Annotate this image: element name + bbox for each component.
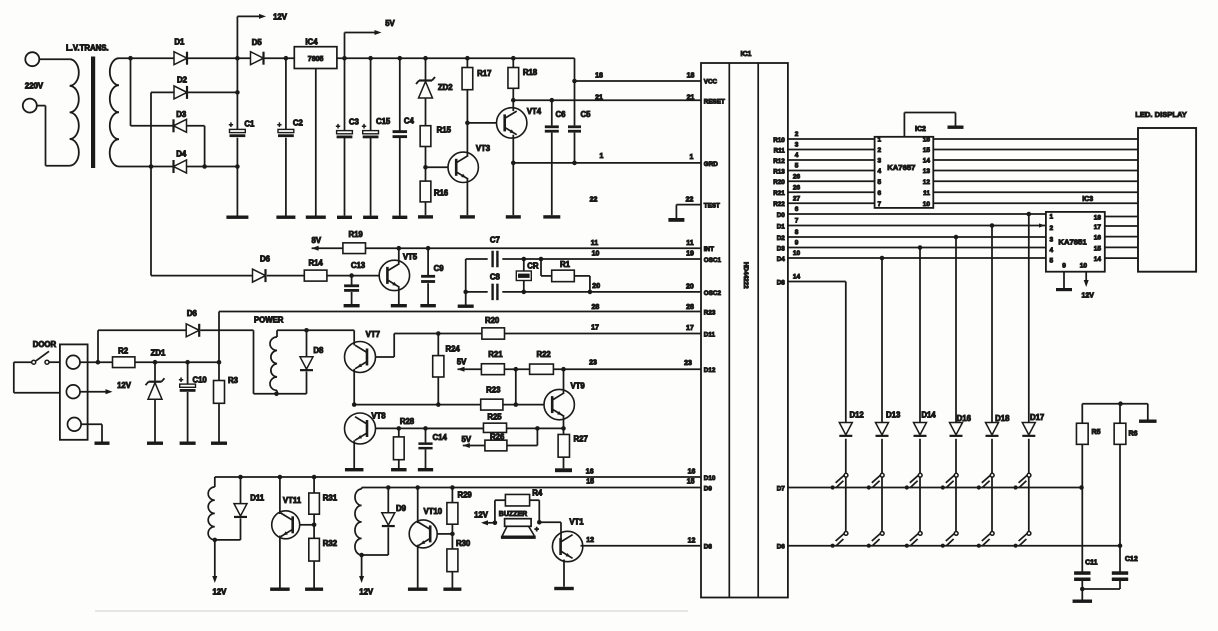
svg-text:D5: D5 [252,38,263,47]
svg-text:D14: D14 [921,411,936,420]
svg-text:11: 11 [923,190,930,197]
svg-text:D11: D11 [250,494,265,503]
svg-text:C10: C10 [192,376,207,385]
svg-text:BUZZER: BUZZER [499,511,527,518]
svg-text:12: 12 [923,179,931,186]
svg-text:C15: C15 [376,117,391,126]
svg-text:16: 16 [1094,235,1102,242]
svg-text:R28: R28 [400,417,415,426]
svg-text:R23: R23 [704,310,716,317]
svg-text:4: 4 [878,168,882,175]
svg-text:18: 18 [595,73,603,80]
svg-text:6: 6 [878,190,882,197]
svg-text:VT1: VT1 [569,518,584,527]
svg-text:8: 8 [795,229,799,236]
svg-text:7805: 7805 [308,56,324,63]
svg-text:20: 20 [686,284,694,291]
svg-text:VCC: VCC [704,79,718,86]
svg-text:C7: C7 [490,236,500,245]
svg-text:C5: C5 [581,110,592,119]
svg-text:IC3: IC3 [1082,196,1093,203]
svg-text:15: 15 [1094,246,1102,253]
svg-text:15: 15 [586,478,594,485]
svg-text:D3: D3 [777,245,786,252]
svg-text:C13: C13 [351,261,366,270]
svg-text:D2: D2 [777,235,786,242]
svg-text:21: 21 [687,95,695,102]
svg-text:1: 1 [600,153,604,160]
svg-text:OSC1: OSC1 [704,257,722,264]
svg-text:D12: D12 [704,367,716,374]
svg-text:C3: C3 [349,117,360,126]
svg-text:1: 1 [1050,214,1054,221]
svg-text:12: 12 [586,537,594,544]
svg-text:17: 17 [1094,224,1102,231]
svg-text:C11: C11 [1085,560,1098,567]
svg-text:12V: 12V [212,588,227,597]
svg-text:R11: R11 [774,147,786,154]
svg-text:R5: R5 [1092,429,1101,436]
svg-text:VT7: VT7 [366,330,380,339]
svg-text:D8: D8 [704,544,713,551]
svg-text:ZD1: ZD1 [151,349,166,358]
svg-text:D10: D10 [704,475,716,482]
svg-text:7: 7 [878,201,882,208]
svg-text:D7: D7 [777,485,786,492]
svg-text:3: 3 [1050,237,1054,244]
svg-text:RESET: RESET [704,99,725,106]
svg-text:23: 23 [684,360,692,367]
svg-text:D3: D3 [176,110,187,119]
svg-text:4: 4 [795,152,799,159]
svg-text:C6: C6 [556,110,567,119]
svg-text:D11: D11 [704,332,716,339]
svg-text:5V: 5V [385,19,395,28]
svg-text:VT8: VT8 [371,412,386,421]
svg-text:6: 6 [795,206,799,213]
svg-text:IC2: IC2 [915,126,926,133]
svg-text:D4: D4 [777,256,786,263]
svg-text:2: 2 [878,147,882,154]
svg-text:13: 13 [923,168,931,175]
svg-text:LED. DISPLAY: LED. DISPLAY [1135,110,1187,119]
svg-text:R18: R18 [523,68,538,77]
svg-text:IC1: IC1 [741,51,752,58]
svg-text:R1: R1 [560,260,571,269]
svg-text:R29: R29 [457,491,472,500]
svg-text:9: 9 [1062,263,1066,270]
svg-text:14: 14 [923,158,931,165]
svg-text:8V: 8V [312,236,322,245]
svg-text:R2: R2 [118,347,129,356]
svg-text:D1: D1 [777,223,786,230]
svg-text:10: 10 [923,201,931,208]
svg-text:D9: D9 [704,486,713,493]
svg-text:D6: D6 [260,255,271,264]
svg-text:D2: D2 [177,76,188,85]
svg-text:10: 10 [793,250,801,257]
svg-text:21: 21 [595,95,603,102]
svg-text:15: 15 [687,478,695,485]
svg-text:R32: R32 [323,539,338,548]
svg-text:5: 5 [795,163,799,170]
svg-text:3: 3 [878,158,882,165]
svg-text:12V: 12V [1081,293,1094,300]
svg-text:C9: C9 [434,264,445,273]
svg-text:C14: C14 [433,433,448,442]
svg-text:R13: R13 [773,168,785,175]
svg-text:D12: D12 [849,411,864,420]
svg-text:D6: D6 [187,309,198,318]
svg-text:+: + [229,122,233,129]
svg-text:R23: R23 [486,386,501,395]
svg-text:POWER: POWER [254,315,284,324]
svg-text:TEST: TEST [704,203,720,210]
svg-text:R4: R4 [532,489,543,498]
svg-text:+: + [179,377,183,384]
svg-text:D17: D17 [1030,413,1044,422]
svg-text:28: 28 [686,304,694,311]
svg-text:R10: R10 [773,137,785,144]
svg-text:D13: D13 [886,411,901,420]
svg-text:R12: R12 [773,158,785,165]
svg-text:5V: 5V [457,357,467,366]
svg-text:R16: R16 [434,188,449,197]
svg-text:INT: INT [704,246,714,253]
svg-text:R21: R21 [488,350,503,359]
svg-text:R31: R31 [323,494,338,503]
svg-text:R22: R22 [536,350,551,359]
svg-text:D8: D8 [777,279,786,286]
svg-text:KA7851: KA7851 [1058,237,1087,246]
svg-text:2: 2 [795,131,799,138]
svg-text:1: 1 [878,137,882,144]
svg-text:14: 14 [793,274,801,281]
svg-text:11: 11 [591,240,599,247]
svg-text:1: 1 [690,154,694,161]
svg-text:+: + [535,526,539,533]
svg-text:23: 23 [589,359,597,366]
svg-text:R3: R3 [228,376,239,385]
svg-text:18: 18 [687,73,695,80]
svg-text:26: 26 [793,174,801,181]
svg-text:R30: R30 [456,539,471,548]
svg-text:VT5: VT5 [403,253,418,262]
svg-text:5: 5 [878,179,882,186]
svg-text:16: 16 [586,468,594,475]
svg-text:19: 19 [686,251,694,258]
svg-text:R20: R20 [485,316,500,325]
svg-text:VT3: VT3 [476,144,491,153]
svg-text:17: 17 [686,325,694,332]
svg-text:R20: R20 [773,179,785,186]
svg-text:D16: D16 [957,414,972,423]
svg-text:D8: D8 [313,346,324,355]
svg-text:18: 18 [1094,215,1102,222]
svg-text:C8: C8 [490,272,501,281]
svg-text:7: 7 [795,218,799,225]
svg-text:D0: D0 [777,212,786,219]
svg-text:26: 26 [793,185,801,192]
svg-text:D18: D18 [995,414,1010,423]
svg-text:R21: R21 [773,190,785,197]
svg-text:R27: R27 [574,435,588,444]
svg-text:+: + [336,123,340,130]
svg-text:+: + [277,122,281,129]
svg-text:220V: 220V [25,81,44,90]
svg-text:27: 27 [793,196,801,203]
svg-text:R17: R17 [477,69,491,78]
svg-text:+: + [362,123,366,130]
svg-text:R24: R24 [445,345,460,354]
svg-text:C1: C1 [244,119,255,128]
svg-text:16: 16 [923,137,931,144]
svg-text:D1: D1 [174,38,185,47]
svg-text:28: 28 [592,304,600,311]
svg-text:4: 4 [1050,247,1054,254]
svg-text:C2: C2 [293,118,304,127]
svg-text:9: 9 [795,240,799,247]
svg-text:10: 10 [592,251,600,258]
svg-text:OSC2: OSC2 [704,290,722,297]
svg-text:R22: R22 [773,201,785,208]
svg-text:C12: C12 [1125,556,1138,563]
svg-text:GRD: GRD [704,161,718,168]
svg-text:5: 5 [1050,258,1054,265]
svg-text:15: 15 [923,147,931,154]
svg-text:VT4: VT4 [527,107,542,116]
svg-text:2: 2 [1050,225,1054,232]
svg-text:R14: R14 [308,259,323,268]
svg-text:R15: R15 [437,125,452,134]
svg-text:5V: 5V [462,435,472,444]
svg-text:17: 17 [591,325,599,332]
svg-text:R19: R19 [348,230,363,239]
svg-text:12V: 12V [474,510,489,519]
svg-text:L.V.TRANS.: L.V.TRANS. [66,44,109,53]
svg-text:R25: R25 [487,412,502,421]
svg-text:22: 22 [686,197,694,204]
svg-text:IC4: IC4 [305,37,318,46]
svg-text:KA7657: KA7657 [887,163,915,172]
svg-text:11: 11 [686,240,694,247]
svg-text:HD44222: HD44222 [742,262,749,289]
svg-text:14: 14 [1094,256,1102,263]
svg-text:VT9: VT9 [570,382,585,391]
svg-text:DOOR: DOOR [33,340,57,349]
svg-text:12: 12 [688,537,696,544]
svg-text:VT11: VT11 [283,496,302,505]
svg-text:12V: 12V [273,13,288,22]
svg-text:16: 16 [688,468,696,475]
svg-text:3: 3 [795,142,799,149]
svg-text:CR: CR [527,261,539,270]
svg-text:12V: 12V [117,381,132,390]
svg-text:C4: C4 [404,117,415,126]
svg-text:D4: D4 [176,149,187,158]
svg-text:12V: 12V [359,588,374,597]
svg-text:R6: R6 [1129,431,1138,438]
svg-text:10: 10 [1080,263,1088,270]
svg-text:ZD2: ZD2 [438,83,453,92]
svg-text:VT10: VT10 [423,507,442,516]
svg-text:22: 22 [590,197,598,204]
svg-text:20: 20 [592,283,600,290]
svg-text:D9: D9 [396,504,407,513]
svg-text:D6: D6 [777,544,786,551]
